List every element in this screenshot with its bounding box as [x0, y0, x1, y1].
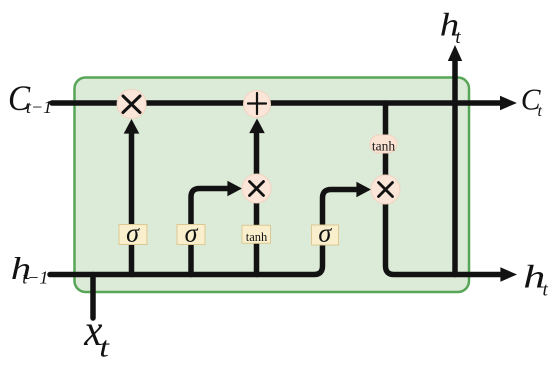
svg-text:t−1: t−1: [26, 97, 52, 117]
multiplier X3: [371, 175, 400, 204]
svg-text:σ: σ: [126, 218, 140, 247]
sigma gate box 1: [119, 225, 147, 245]
wire: cell state line C_{t-1} to C_t: [52, 100, 501, 106]
svg-text:t: t: [538, 103, 543, 120]
wire: multiplier X2 to adder plus: [254, 134, 260, 177]
sigma gate box 3: [312, 225, 339, 245]
multiplier X1 on C line: [117, 90, 146, 119]
sigma gate box 2: [177, 225, 205, 245]
svg-text:tanh: tanh: [246, 230, 268, 244]
wire: C line branch down through tanh pill and X3 with elbow to h_t output: [386, 103, 501, 275]
arrowhead: into multiplier X2: [227, 181, 242, 197]
arrowhead: h_t bottom output: [500, 267, 517, 281]
LSTM cell body: [75, 78, 470, 293]
svg-text:σ: σ: [318, 218, 332, 247]
arrowhead: h_t top output: [448, 45, 462, 61]
svg-text:t: t: [455, 27, 461, 48]
wire: h_{t-1} input line with elbow up to forget-like third gate: [50, 190, 357, 275]
multiplier X2: [242, 174, 271, 203]
arrowhead: C_t output: [500, 96, 517, 110]
wire: candidate tanh vertical from h line to multiplier X2: [254, 200, 260, 275]
arrowhead: into adder plus: [249, 119, 265, 134]
svg-text:tanh: tanh: [372, 138, 395, 153]
arrowhead: into multiplier X1: [124, 119, 140, 134]
tanh gate box: [242, 225, 271, 243]
svg-text:σ: σ: [185, 218, 199, 247]
wire: first sigma gate vertical to multiplier X1: [129, 134, 135, 275]
wire: h branch vertical to h_t top output crossing C line: [452, 60, 458, 275]
wire: x_t input drop: [90, 275, 96, 319]
adder plus on C line: [244, 91, 271, 118]
arrowhead: into multiplier X3: [356, 182, 371, 198]
svg-text:t: t: [543, 280, 549, 301]
wire: second sigma gate vertical with elbow to multiplier X2: [191, 189, 228, 275]
svg-text:t: t: [99, 330, 110, 363]
tanh pill on cell state branch: [370, 135, 397, 153]
svg-text:t−1: t−1: [22, 268, 48, 288]
